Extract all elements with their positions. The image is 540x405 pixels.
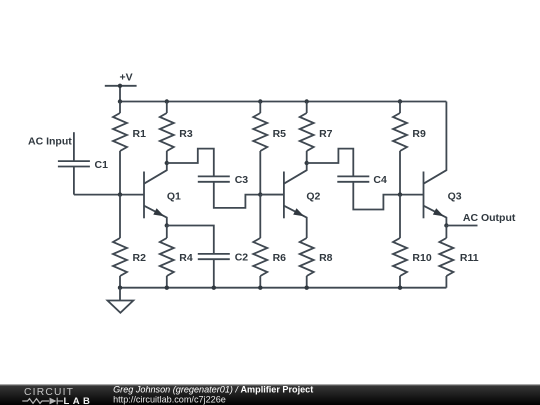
- wire C4 to Q3 base node: [353, 182, 423, 210]
- node bottom rail junction R2: [118, 286, 122, 290]
- svg-text:R2: R2: [133, 252, 147, 264]
- node top rail junction R9: [398, 99, 402, 103]
- node top rail junction R5: [258, 99, 262, 103]
- transistor Q1: [144, 163, 181, 226]
- svg-text:C4: C4: [373, 174, 387, 186]
- svg-text:R9: R9: [412, 128, 426, 140]
- resistor R6: [253, 195, 286, 288]
- resistor R5: [253, 102, 286, 195]
- node Q3 emitter junction: [444, 223, 448, 227]
- node bottom rail junction R8: [305, 286, 309, 290]
- svg-text:R11: R11: [460, 252, 479, 264]
- capacitor C2: [198, 251, 248, 287]
- node top rail junction R7: [305, 99, 309, 103]
- svg-text:R4: R4: [179, 252, 193, 264]
- svg-text:C2: C2: [235, 251, 249, 263]
- node bottom rail junction R10: [398, 286, 402, 290]
- node Q1 base junction: [118, 192, 122, 196]
- svg-text:+V: +V: [120, 71, 133, 83]
- node Q3 base junction: [398, 192, 402, 196]
- resistor R7: [300, 102, 333, 164]
- +V supply symbol: [105, 71, 137, 101]
- wire C3 to Q2 base node: [214, 182, 284, 208]
- svg-text:C1: C1: [95, 159, 109, 171]
- node Q1 collector junction: [165, 161, 169, 165]
- transistor Q3: [424, 102, 462, 226]
- node Q2 collector junction: [305, 161, 309, 165]
- wire Q2 collector to C4: [307, 149, 354, 177]
- capacitor C3: [198, 174, 248, 186]
- wire bottom rail: [120, 287, 446, 289]
- footer bar: [0, 384, 540, 405]
- capacitor C1: [58, 159, 108, 195]
- svg-text:C3: C3: [235, 174, 249, 186]
- svg-text:Q2: Q2: [306, 191, 320, 203]
- resistor R3: [160, 102, 193, 164]
- CircuitLab logo resistor-diode glyph: [22, 398, 63, 405]
- resistor R9: [393, 102, 426, 195]
- transistor Q2: [260, 163, 320, 238]
- wire top rail: [120, 101, 446, 103]
- resistor R10: [393, 195, 432, 288]
- node bottom rail junction R6: [258, 286, 262, 290]
- AC Input terminal: [28, 132, 74, 161]
- node top rail junction R1: [118, 99, 122, 103]
- svg-text:R8: R8: [319, 252, 333, 264]
- resistor R11: [439, 226, 478, 288]
- resistor R8: [300, 238, 333, 288]
- wire AC Output stub: [446, 225, 477, 227]
- svg-text:AC Output: AC Output: [463, 212, 516, 224]
- svg-text:AC Input: AC Input: [28, 136, 72, 148]
- svg-text:LAB: LAB: [64, 396, 94, 405]
- wire Q1 emitter to C2: [167, 226, 214, 254]
- node bottom rail junction C2: [212, 286, 216, 290]
- svg-text:R6: R6: [273, 252, 287, 264]
- svg-text:http://circuitlab.com/c7j226e: http://circuitlab.com/c7j226e: [113, 395, 226, 405]
- svg-text:R10: R10: [412, 252, 431, 264]
- svg-text:R1: R1: [133, 128, 147, 140]
- svg-text:Greg Johnson (gregenater01) /: Greg Johnson (gregenater01) / Amplifier …: [113, 384, 313, 394]
- svg-text:R3: R3: [179, 128, 193, 140]
- node Q1 emitter junction: [165, 223, 169, 227]
- ground: [108, 288, 134, 313]
- node top rail junction R3: [165, 99, 169, 103]
- wire Q1 collector to C3: [167, 149, 214, 177]
- node Q2 base junction: [258, 192, 262, 196]
- resistor R1: [113, 102, 146, 195]
- svg-text:R5: R5: [273, 128, 287, 140]
- resistor R2: [113, 195, 146, 288]
- capacitor C4: [337, 174, 387, 186]
- svg-text:Q3: Q3: [448, 191, 462, 203]
- svg-text:Q1: Q1: [167, 191, 181, 203]
- resistor R4: [160, 226, 193, 288]
- svg-text:R7: R7: [319, 128, 333, 140]
- wire C1 to Q1 base node: [74, 194, 144, 196]
- node bottom rail junction R4: [165, 286, 169, 290]
